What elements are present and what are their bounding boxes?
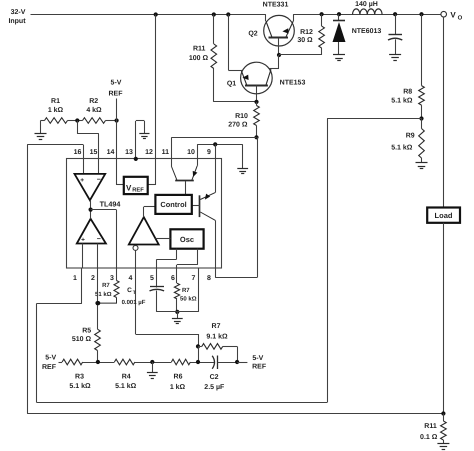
svg-text:R5: R5 xyxy=(82,328,91,335)
svg-text:V: V xyxy=(450,11,456,20)
svg-text:Q2: Q2 xyxy=(248,30,257,37)
svg-text:REF: REF xyxy=(42,364,57,371)
svg-text:5.1 kΩ: 5.1 kΩ xyxy=(115,382,137,390)
svg-text:REF: REF xyxy=(109,91,124,98)
svg-text:Q1: Q1 xyxy=(227,81,236,88)
svg-text:+: + xyxy=(81,237,85,244)
svg-text:REF: REF xyxy=(132,188,144,194)
svg-text:5.1 kΩ: 5.1 kΩ xyxy=(391,143,413,151)
svg-text:R7: R7 xyxy=(212,323,221,330)
svg-text:510 Ω: 510 Ω xyxy=(72,336,92,343)
svg-text:NTE153: NTE153 xyxy=(280,80,306,87)
svg-text:15: 15 xyxy=(90,149,98,156)
svg-text:140 µH: 140 µH xyxy=(355,1,378,8)
svg-text:3: 3 xyxy=(110,275,114,282)
svg-text:O: O xyxy=(458,15,463,22)
svg-text:NTE331: NTE331 xyxy=(263,1,289,8)
svg-text:50 kΩ: 50 kΩ xyxy=(180,295,197,302)
svg-text:5-V: 5-V xyxy=(252,355,263,362)
svg-text:R1: R1 xyxy=(51,98,60,105)
svg-text:30 Ω: 30 Ω xyxy=(297,37,313,44)
svg-text:R4: R4 xyxy=(122,374,131,381)
svg-text:−: − xyxy=(97,236,101,243)
svg-text:+: + xyxy=(80,177,84,184)
svg-text:11: 11 xyxy=(162,149,170,156)
svg-text:V: V xyxy=(126,184,132,193)
svg-text:R7: R7 xyxy=(182,287,190,294)
svg-text:R7: R7 xyxy=(102,282,110,289)
svg-text:1: 1 xyxy=(73,275,77,282)
svg-text:Osc: Osc xyxy=(180,235,194,244)
svg-text:32-V: 32-V xyxy=(11,9,26,16)
svg-text:5-V: 5-V xyxy=(45,354,56,361)
svg-text:16: 16 xyxy=(74,149,82,156)
svg-text:5.1 kΩ: 5.1 kΩ xyxy=(69,382,91,390)
svg-text:R11: R11 xyxy=(424,423,437,430)
svg-text:5-V: 5-V xyxy=(111,80,122,87)
svg-text:C: C xyxy=(127,287,132,294)
svg-text:2: 2 xyxy=(91,275,95,282)
svg-text:1 kΩ: 1 kΩ xyxy=(170,383,186,391)
svg-text:1 kΩ: 1 kΩ xyxy=(48,106,64,114)
svg-text:6: 6 xyxy=(171,275,175,282)
svg-text:10: 10 xyxy=(187,149,195,156)
svg-text:R12: R12 xyxy=(300,29,313,36)
svg-text:T: T xyxy=(133,290,136,296)
svg-text:4: 4 xyxy=(129,275,133,282)
svg-text:5.1 kΩ: 5.1 kΩ xyxy=(391,97,413,105)
svg-text:12: 12 xyxy=(145,149,153,156)
svg-text:Control: Control xyxy=(160,200,186,209)
svg-text:R2: R2 xyxy=(89,98,98,105)
svg-text:R9: R9 xyxy=(406,133,415,140)
svg-text:5: 5 xyxy=(150,275,154,282)
svg-text:R3: R3 xyxy=(75,374,84,381)
svg-text:7: 7 xyxy=(192,275,196,282)
svg-text:TL494: TL494 xyxy=(100,200,121,209)
svg-text:14: 14 xyxy=(107,149,115,156)
svg-text:R6: R6 xyxy=(174,374,183,381)
svg-text:13: 13 xyxy=(125,149,133,156)
svg-text:R10: R10 xyxy=(235,113,248,120)
svg-text:R11: R11 xyxy=(193,46,206,53)
svg-text:Load: Load xyxy=(435,211,453,220)
svg-text:270 Ω: 270 Ω xyxy=(228,121,248,128)
svg-text:100 Ω: 100 Ω xyxy=(189,55,209,62)
svg-text:0.1 Ω: 0.1 Ω xyxy=(420,434,438,441)
svg-text:8: 8 xyxy=(207,275,211,282)
svg-text:9.1 kΩ: 9.1 kΩ xyxy=(206,332,228,340)
svg-text:2.5 µF: 2.5 µF xyxy=(204,384,225,391)
svg-text:9: 9 xyxy=(207,149,211,156)
svg-text:4 kΩ: 4 kΩ xyxy=(86,106,102,114)
svg-text:Input: Input xyxy=(8,18,26,25)
svg-text:−: − xyxy=(97,177,101,184)
svg-text:R8: R8 xyxy=(403,89,412,96)
svg-text:REF: REF xyxy=(252,363,267,370)
svg-text:C2: C2 xyxy=(210,374,219,381)
svg-text:NTE6013: NTE6013 xyxy=(352,28,382,35)
svg-text:0.001 µF: 0.001 µF xyxy=(122,299,146,306)
